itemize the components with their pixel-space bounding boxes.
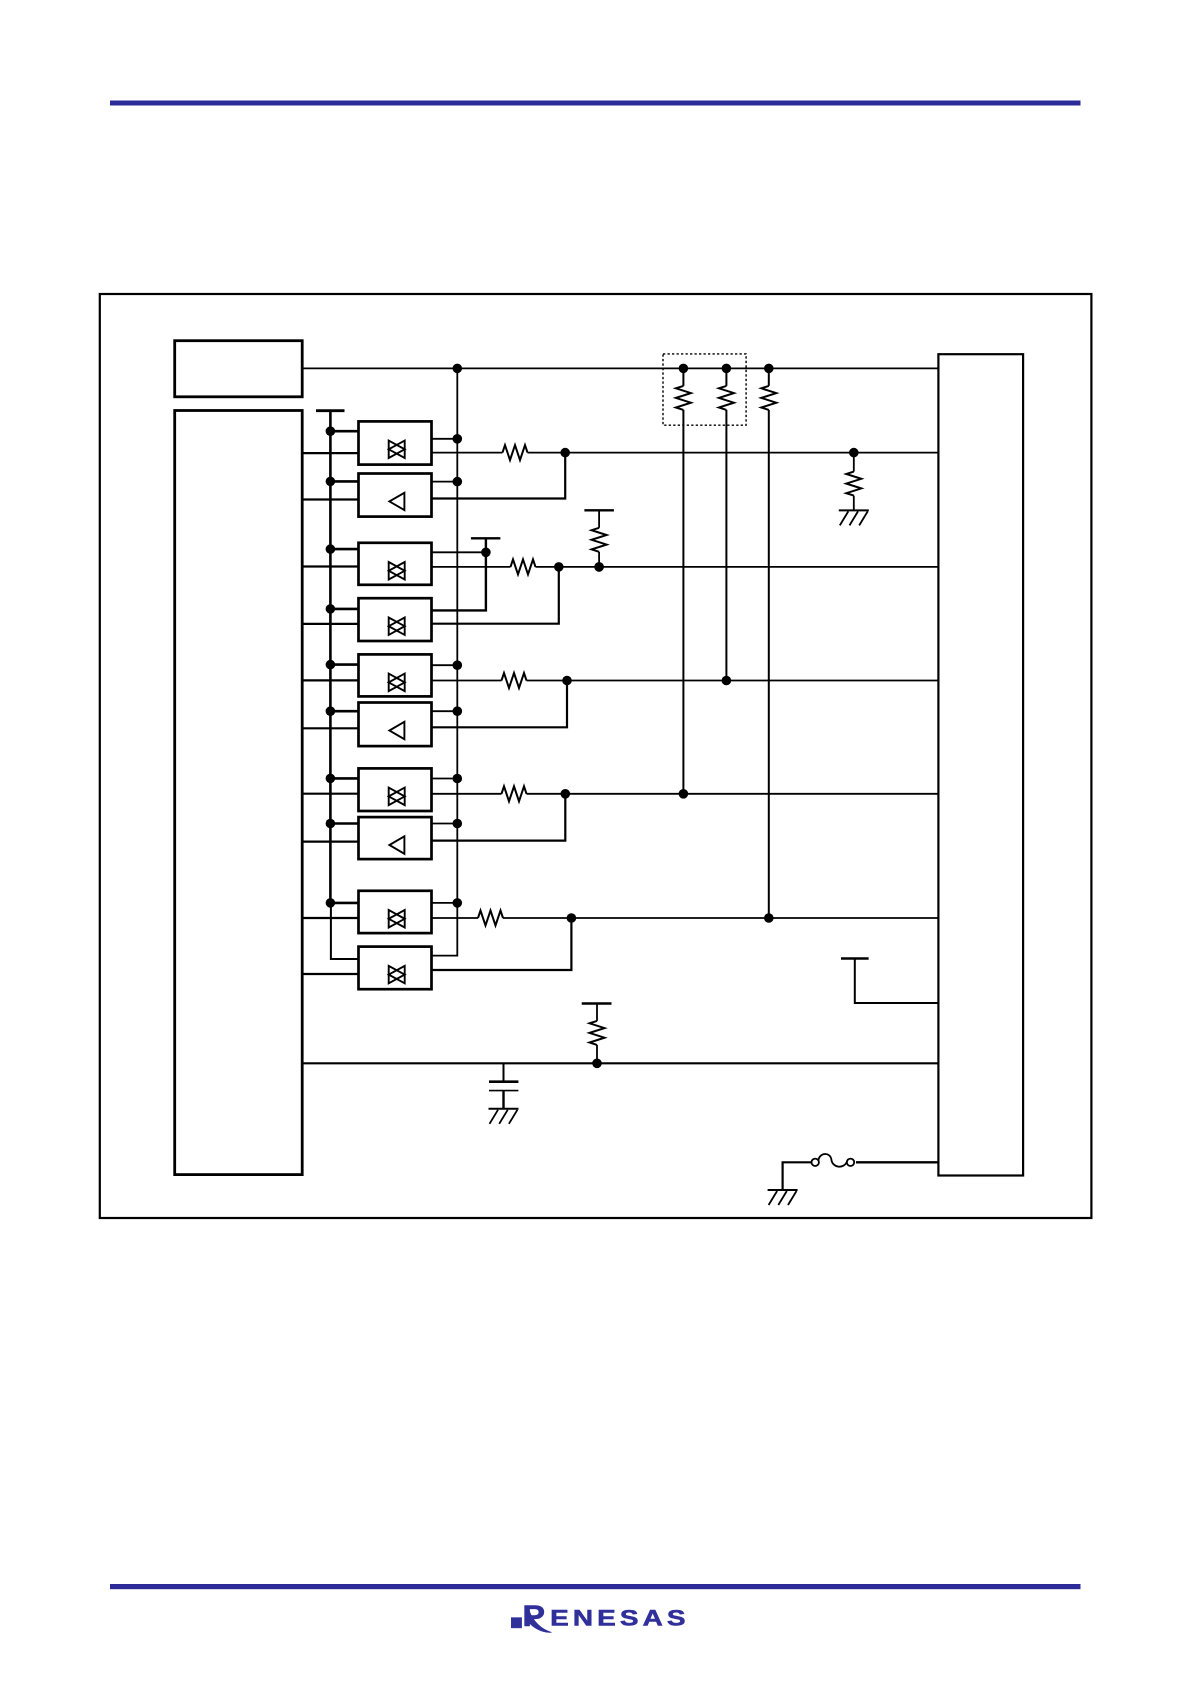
buffer U5 box xyxy=(359,654,432,696)
buffer U4 box xyxy=(359,598,432,641)
buffer U1 enable pin xyxy=(432,434,463,444)
node: rail / resistor R1 junction xyxy=(679,364,689,374)
wire: bus jog to U10 xyxy=(331,903,359,959)
node P3 series-resistor output xyxy=(562,676,572,686)
resistor R6 (pull-up on bottom line) xyxy=(582,1004,612,1069)
buffer U6 pins xyxy=(302,706,358,728)
footer rule xyxy=(110,1584,1081,1589)
buffer U8 box xyxy=(359,817,432,859)
resistor R1 xyxy=(676,368,691,793)
header rule xyxy=(110,101,1081,106)
resistor R2 xyxy=(719,368,734,680)
node: rail / enable bus junction xyxy=(453,364,463,374)
wire pad line P1 with series resistor xyxy=(432,445,939,460)
ground (below C1) xyxy=(489,1109,519,1124)
buffer U7 pins xyxy=(302,774,358,794)
fuse FB1 xyxy=(812,1154,855,1167)
node: rail / resistor R3 junction xyxy=(764,364,774,374)
node P3 / vertical resistor lead junction xyxy=(722,676,732,686)
wire P1 feedback to receiver xyxy=(432,453,566,499)
ground (below R4) xyxy=(839,510,869,525)
power bar (left pull-up bus supply) xyxy=(316,409,345,412)
buffer U1 pins xyxy=(302,426,358,453)
resistor R5 (pull-up on P2) xyxy=(584,510,614,571)
buffer U3 enable pin xyxy=(432,548,491,558)
buffer U10 box xyxy=(359,947,432,990)
node P4 / vertical resistor lead junction xyxy=(679,789,689,799)
buffer U7 enable pin xyxy=(432,774,463,784)
buffer U8 enable pin xyxy=(432,819,463,829)
buffer U9 box xyxy=(359,891,432,933)
buffer U2 pins xyxy=(302,477,358,500)
node P5 series-resistor output xyxy=(567,913,577,923)
buffer U10 pins xyxy=(302,973,358,975)
wire: fuse to ground xyxy=(783,1162,812,1190)
wire P5 feedback to receiver xyxy=(432,918,572,970)
wire: bottom signal line xyxy=(302,1062,938,1064)
node P2 / vertical resistor lead junction xyxy=(594,562,604,572)
buffer U3 box xyxy=(359,543,432,585)
buffer U9 pins xyxy=(302,898,358,918)
wire pad line P3 with series resistor xyxy=(432,673,939,688)
buffer U1 box xyxy=(359,421,432,464)
node P1 series-resistor output xyxy=(560,448,570,458)
node P4 series-resistor output xyxy=(561,789,571,799)
svg-text:ENESAS: ENESAS xyxy=(550,1606,689,1631)
Renesas logo xyxy=(511,1599,689,1632)
block B (left tall box) xyxy=(175,411,303,1175)
resistor R3 xyxy=(761,368,776,918)
wire P2 feedback to receiver xyxy=(432,567,559,624)
block A (top-left box) xyxy=(175,341,303,397)
resistor R4 (pull-down on P1) xyxy=(846,448,861,511)
capacitor C1 xyxy=(489,1063,518,1109)
buffer U6 box xyxy=(359,703,432,747)
buffer U5 enable pin xyxy=(432,660,463,670)
wire P3 feedback to receiver xyxy=(432,681,568,728)
block C (right tall box) xyxy=(938,354,1023,1175)
buffer U4 pins xyxy=(302,604,358,624)
wire: enable bus x=457 xyxy=(432,368,458,955)
ground (below fuse) xyxy=(768,1190,798,1205)
buffer U2 enable pin xyxy=(432,477,463,487)
wire pad line P4 with series resistor xyxy=(432,786,939,801)
figure frame xyxy=(100,294,1092,1218)
buffer U5 pins xyxy=(302,660,358,681)
buffer U7 box xyxy=(359,768,432,811)
power bar (block C supply pin) xyxy=(841,959,938,1004)
buffer U9 enable pin xyxy=(432,898,463,908)
wire: block C bottom pin xyxy=(856,1161,938,1163)
wire pad line P5 with series resistor xyxy=(432,911,939,926)
buffer U3 pins xyxy=(302,544,358,566)
wire: enable pull-up lead to U4 xyxy=(432,538,486,610)
dashed box (optional pull-up resistors) xyxy=(663,354,746,425)
wire P4 feedback to receiver xyxy=(432,794,566,841)
node P5 / vertical resistor lead junction xyxy=(764,913,774,923)
buffer U8 pins xyxy=(302,819,358,842)
buffer U6 enable pin xyxy=(432,706,463,716)
node P2 series-resistor output xyxy=(554,562,564,572)
wire: top supply rail y=368 xyxy=(302,367,938,369)
node: rail / resistor R2 junction xyxy=(722,364,732,374)
buffer U4 enable pin xyxy=(432,609,486,611)
wire pad line P2 with series resistor xyxy=(432,559,939,574)
buffer U2 box xyxy=(359,474,432,517)
wire: left pull-up bus xyxy=(329,411,332,903)
power bar (enable pull-up for U3/U4) xyxy=(471,537,501,539)
